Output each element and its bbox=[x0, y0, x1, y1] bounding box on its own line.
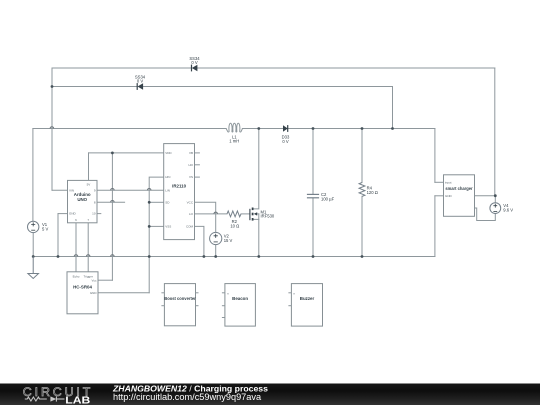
svg-text:UNO: UNO bbox=[77, 197, 87, 202]
wire IR2110 HO stub bbox=[195, 164, 200, 166]
wire IR2110 SD link bbox=[149, 201, 164, 203]
wire Arduino pin10 stub bbox=[97, 213, 101, 215]
svg-text:HO: HO bbox=[189, 163, 194, 167]
resistor R2 bbox=[227, 211, 241, 229]
svg-text:VSS: VSS bbox=[165, 225, 171, 229]
wire VIN horizontal bbox=[52, 189, 68, 191]
svg-text:VDD: VDD bbox=[165, 151, 172, 155]
wire V1 bottom to ground rail bbox=[32, 233, 34, 257]
svg-text:1 mH: 1 mH bbox=[229, 138, 239, 143]
IC U7 Buzzer bbox=[288, 284, 322, 327]
svg-text:Buzzer: Buzzer bbox=[300, 296, 315, 301]
svg-text:GND: GND bbox=[90, 291, 98, 295]
node C2 rail bbox=[312, 255, 315, 258]
wire IR2110 VSS link bbox=[149, 225, 164, 227]
svg-text:LIN: LIN bbox=[165, 188, 170, 192]
hop wire crossing at (112.4,202.3) bbox=[111, 201, 115, 203]
wire Arduino pin6 to Echo bbox=[75, 223, 77, 272]
svg-text:0 V: 0 V bbox=[191, 60, 197, 65]
wire charger output to junction bbox=[475, 195, 496, 197]
node source rail bbox=[257, 255, 260, 258]
node arduino gnd rail bbox=[57, 255, 60, 258]
svg-text:VS: VS bbox=[189, 175, 193, 179]
node row2 left bbox=[51, 85, 54, 88]
wire 5V to IR2110 VDD bbox=[89, 152, 164, 154]
svg-text:IRF530: IRF530 bbox=[261, 214, 275, 219]
svg-text:9.6 V: 9.6 V bbox=[503, 208, 513, 213]
wire IR2110 COM elbow to rail bbox=[195, 226, 204, 256]
hop wire crossing at (112.4,256.5) bbox=[111, 255, 115, 257]
resistor R4 bbox=[359, 183, 378, 197]
node row2 drop bbox=[391, 127, 394, 130]
wire Arduino pin7 to Trigger bbox=[87, 223, 89, 272]
node C2 top bbox=[312, 127, 315, 130]
wire C2 bottom bbox=[312, 198, 314, 256]
node drain rail bbox=[257, 127, 260, 130]
svg-text:0 V: 0 V bbox=[282, 139, 288, 144]
wire junction to V4 top bbox=[494, 196, 496, 203]
voltage source V1 bbox=[28, 221, 49, 232]
node R4 top bbox=[361, 127, 364, 130]
wire R4 bottom bbox=[361, 196, 363, 256]
wire IR2110 HIN elbow bbox=[149, 177, 164, 293]
IC U5 Boost converter bbox=[161, 284, 198, 326]
wire row2 drop to main rail bbox=[392, 87, 394, 129]
svg-text:HIN: HIN bbox=[165, 175, 170, 179]
svg-text:0 V: 0 V bbox=[137, 79, 143, 84]
wire C2 top bbox=[312, 129, 314, 195]
hop wire crossing at (112.4,190.3) bbox=[111, 189, 115, 191]
svg-text:GND: GND bbox=[69, 212, 77, 216]
svg-text:LAB: LAB bbox=[65, 395, 91, 405]
wire R2 to gate bbox=[241, 213, 250, 215]
hop wire crossing at (51.9,128.5) bbox=[50, 127, 54, 129]
wire R4 top bbox=[361, 129, 363, 183]
IC U3 HC-SR04 bbox=[67, 272, 98, 314]
transistor M1 IRF530 bbox=[250, 208, 275, 221]
node com rail bbox=[203, 255, 206, 258]
node R4 rail bbox=[361, 255, 364, 258]
wire top row 2 right segment bbox=[143, 86, 393, 88]
wire right drop to V4 junction bbox=[494, 68, 496, 196]
voltage source V2 bbox=[210, 232, 233, 244]
wire top row 1 left segment bbox=[52, 67, 192, 69]
wire main rail segment C bbox=[288, 128, 435, 130]
logo resistor-diode symbol bbox=[25, 396, 65, 401]
IC U2 IR2110 bbox=[164, 144, 195, 240]
wire ground rail bbox=[33, 256, 435, 258]
svg-text:smart charger: smart charger bbox=[445, 186, 473, 191]
node V2 rail bbox=[214, 255, 217, 258]
node V4 junction bbox=[494, 194, 497, 197]
wire mosfet drain up to rail bbox=[253, 129, 259, 209]
hop wire crossing at (148.3,190.3) bbox=[147, 188, 151, 190]
node 5V branch bbox=[111, 152, 114, 155]
hop wire crossing at (215.7,213.9) bbox=[214, 212, 218, 214]
inductor L1 bbox=[226, 123, 242, 132]
hop wire crossing at (76,256.5) bbox=[74, 255, 78, 257]
svg-text:5 V: 5 V bbox=[42, 227, 48, 232]
svg-text:10: 10 bbox=[92, 212, 96, 216]
diode D2 SS34 second row bbox=[135, 74, 146, 90]
wire Arduino GND down to rail bbox=[57, 214, 59, 257]
svg-text:Echo: Echo bbox=[73, 274, 80, 278]
wire main rail segment A bbox=[33, 128, 226, 130]
svg-text:Beacon: Beacon bbox=[232, 296, 248, 301]
svg-text:GND: GND bbox=[445, 194, 453, 198]
wire left drop to V1 bbox=[32, 129, 34, 222]
wire Arduino 5V up bbox=[88, 153, 90, 181]
wire mosfet body to source bbox=[258, 214, 260, 220]
IC U4 smart charger bbox=[444, 175, 475, 217]
voltage source V4 bbox=[490, 203, 513, 214]
IC U6 Beacon bbox=[222, 284, 256, 327]
svg-text:15 V: 15 V bbox=[224, 238, 233, 243]
wire charger gnd horizontal bbox=[435, 195, 444, 197]
node SD tie bbox=[148, 201, 151, 204]
svg-text:COM: COM bbox=[186, 225, 194, 229]
node V1 rail bbox=[32, 255, 35, 258]
wire top row 2 left segment bbox=[52, 86, 137, 88]
node VSS tie bbox=[148, 225, 151, 228]
wire Arduino pin9 to IR2110 LIN bbox=[97, 189, 164, 191]
svg-text:Vcc: Vcc bbox=[91, 278, 97, 282]
hop wire crossing at (88.2,256.5) bbox=[86, 255, 90, 257]
svg-text:IR2110: IR2110 bbox=[172, 183, 186, 188]
wire HC-SR04 GND horizontal bbox=[98, 292, 149, 294]
svg-text:input: input bbox=[445, 181, 452, 185]
wire mosfet body link bbox=[257, 213, 259, 215]
wire Arduino pin8 stub bbox=[97, 201, 125, 203]
node hcsr04 gnd rail bbox=[148, 255, 151, 258]
svg-text:VCC: VCC bbox=[187, 200, 194, 204]
wire Arduino GND left bbox=[58, 213, 68, 215]
wire IR2110 LO to R2 bbox=[195, 213, 228, 215]
wire main rail segment B bbox=[242, 128, 283, 130]
svg-text:Boost converter: Boost converter bbox=[164, 296, 196, 301]
svg-text:VB: VB bbox=[189, 151, 193, 155]
wire IR2110 VCC to V2 bbox=[195, 202, 216, 232]
wire charger gnd vertical bbox=[434, 196, 436, 257]
svg-text:5V: 5V bbox=[87, 183, 91, 187]
ground bbox=[28, 257, 39, 279]
wire 5V branch down to HC-SR04 Vcc bbox=[111, 153, 113, 280]
wire charger input horizontal bbox=[435, 181, 444, 183]
svg-text:120 Ω: 120 Ω bbox=[367, 190, 378, 195]
svg-text:HC-SR04: HC-SR04 bbox=[73, 284, 92, 289]
svg-text:10 Ω: 10 Ω bbox=[230, 224, 239, 229]
wire mosfet source down to rail bbox=[253, 219, 259, 256]
wire IR2110 VB stub bbox=[195, 152, 200, 154]
wire left vertical to VIN bbox=[51, 68, 53, 190]
IC U1 Arduino UNO bbox=[68, 180, 98, 222]
wire HC-SR04 Vcc horizontal bbox=[98, 279, 112, 281]
wire IR2110 VS stub bbox=[195, 176, 200, 178]
diode D3 bbox=[282, 125, 290, 144]
wire top row 1 right segment bbox=[198, 67, 495, 69]
diode D1 SS34 top row bbox=[189, 56, 200, 72]
node junction dots bbox=[32, 85, 497, 258]
wire charger input drop bbox=[434, 129, 436, 183]
wire V4 bottom loop bbox=[475, 208, 496, 221]
svg-text:100 µF: 100 µF bbox=[321, 197, 335, 202]
wire V2 bottom to rail bbox=[215, 245, 217, 257]
svg-text:http://circuitlab.com/c59wny9q: http://circuitlab.com/c59wny9q97ava bbox=[113, 392, 262, 402]
capacitor C2 bbox=[307, 192, 335, 202]
svg-text:LO: LO bbox=[189, 212, 194, 216]
